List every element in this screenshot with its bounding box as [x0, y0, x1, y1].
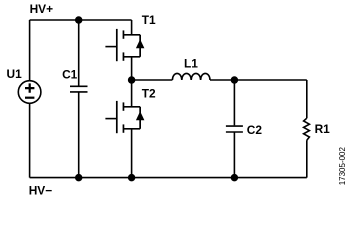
capacitor C1: [70, 86, 88, 92]
wire C2 column upper: [233, 80, 235, 125]
label HV+: [30, 2, 54, 16]
capacitor C2: [226, 126, 243, 132]
wire left column lower (U1 to HV-): [29, 103, 31, 177]
wire top rail HV+: [30, 19, 132, 21]
wire C2 column lower: [233, 132, 235, 178]
voltage source U1: [18, 81, 41, 104]
svg-text:C1: C1: [62, 68, 78, 82]
label R1: [315, 122, 331, 136]
wire R1 column upper: [306, 80, 308, 118]
wire bottom rail HV-: [30, 177, 307, 179]
inductor L1: [172, 73, 210, 80]
node output junction: [231, 76, 239, 84]
svg-text:T2: T2: [142, 87, 156, 101]
wire L1 to R1 column: [210, 79, 307, 81]
label L1: [184, 56, 198, 70]
wire T1 drain to top rail: [131, 20, 133, 35]
svg-text:HV+: HV+: [30, 2, 54, 16]
svg-text:U1: U1: [7, 67, 23, 81]
svg-text:L1: L1: [184, 56, 198, 70]
wire midpoint to L1: [132, 79, 173, 81]
node C2 bottom junction: [231, 174, 239, 182]
transistor T1: [105, 29, 144, 61]
wire T2 source to bottom rail: [131, 129, 133, 178]
svg-text:17305-002: 17305-002: [338, 146, 347, 185]
svg-text:HV−: HV−: [29, 183, 53, 197]
wire C1 column lower: [78, 92, 80, 178]
wire T1 source to T2 drain: [131, 57, 133, 107]
svg-text:R1: R1: [315, 122, 331, 136]
wire left column upper (HV+ to U1): [29, 20, 31, 81]
node T2 bottom junction: [128, 174, 136, 182]
label C2: [247, 123, 263, 137]
label HV-: [29, 183, 53, 197]
svg-text:C2: C2: [247, 123, 263, 137]
node C1 bottom junction: [75, 174, 83, 182]
transistor T2: [105, 101, 144, 133]
label T1: [142, 13, 156, 27]
label T2: [142, 87, 156, 101]
resistor R1: [304, 118, 310, 140]
label figure number 17305-002: [338, 146, 347, 185]
svg-text:T1: T1: [142, 13, 156, 27]
label C1: [62, 68, 78, 82]
wire R1 column lower: [306, 140, 308, 177]
wire C1 column upper: [78, 20, 80, 86]
node C1 top junction: [75, 16, 83, 24]
label U1: [7, 67, 23, 81]
node switch midpoint junction: [128, 76, 136, 84]
